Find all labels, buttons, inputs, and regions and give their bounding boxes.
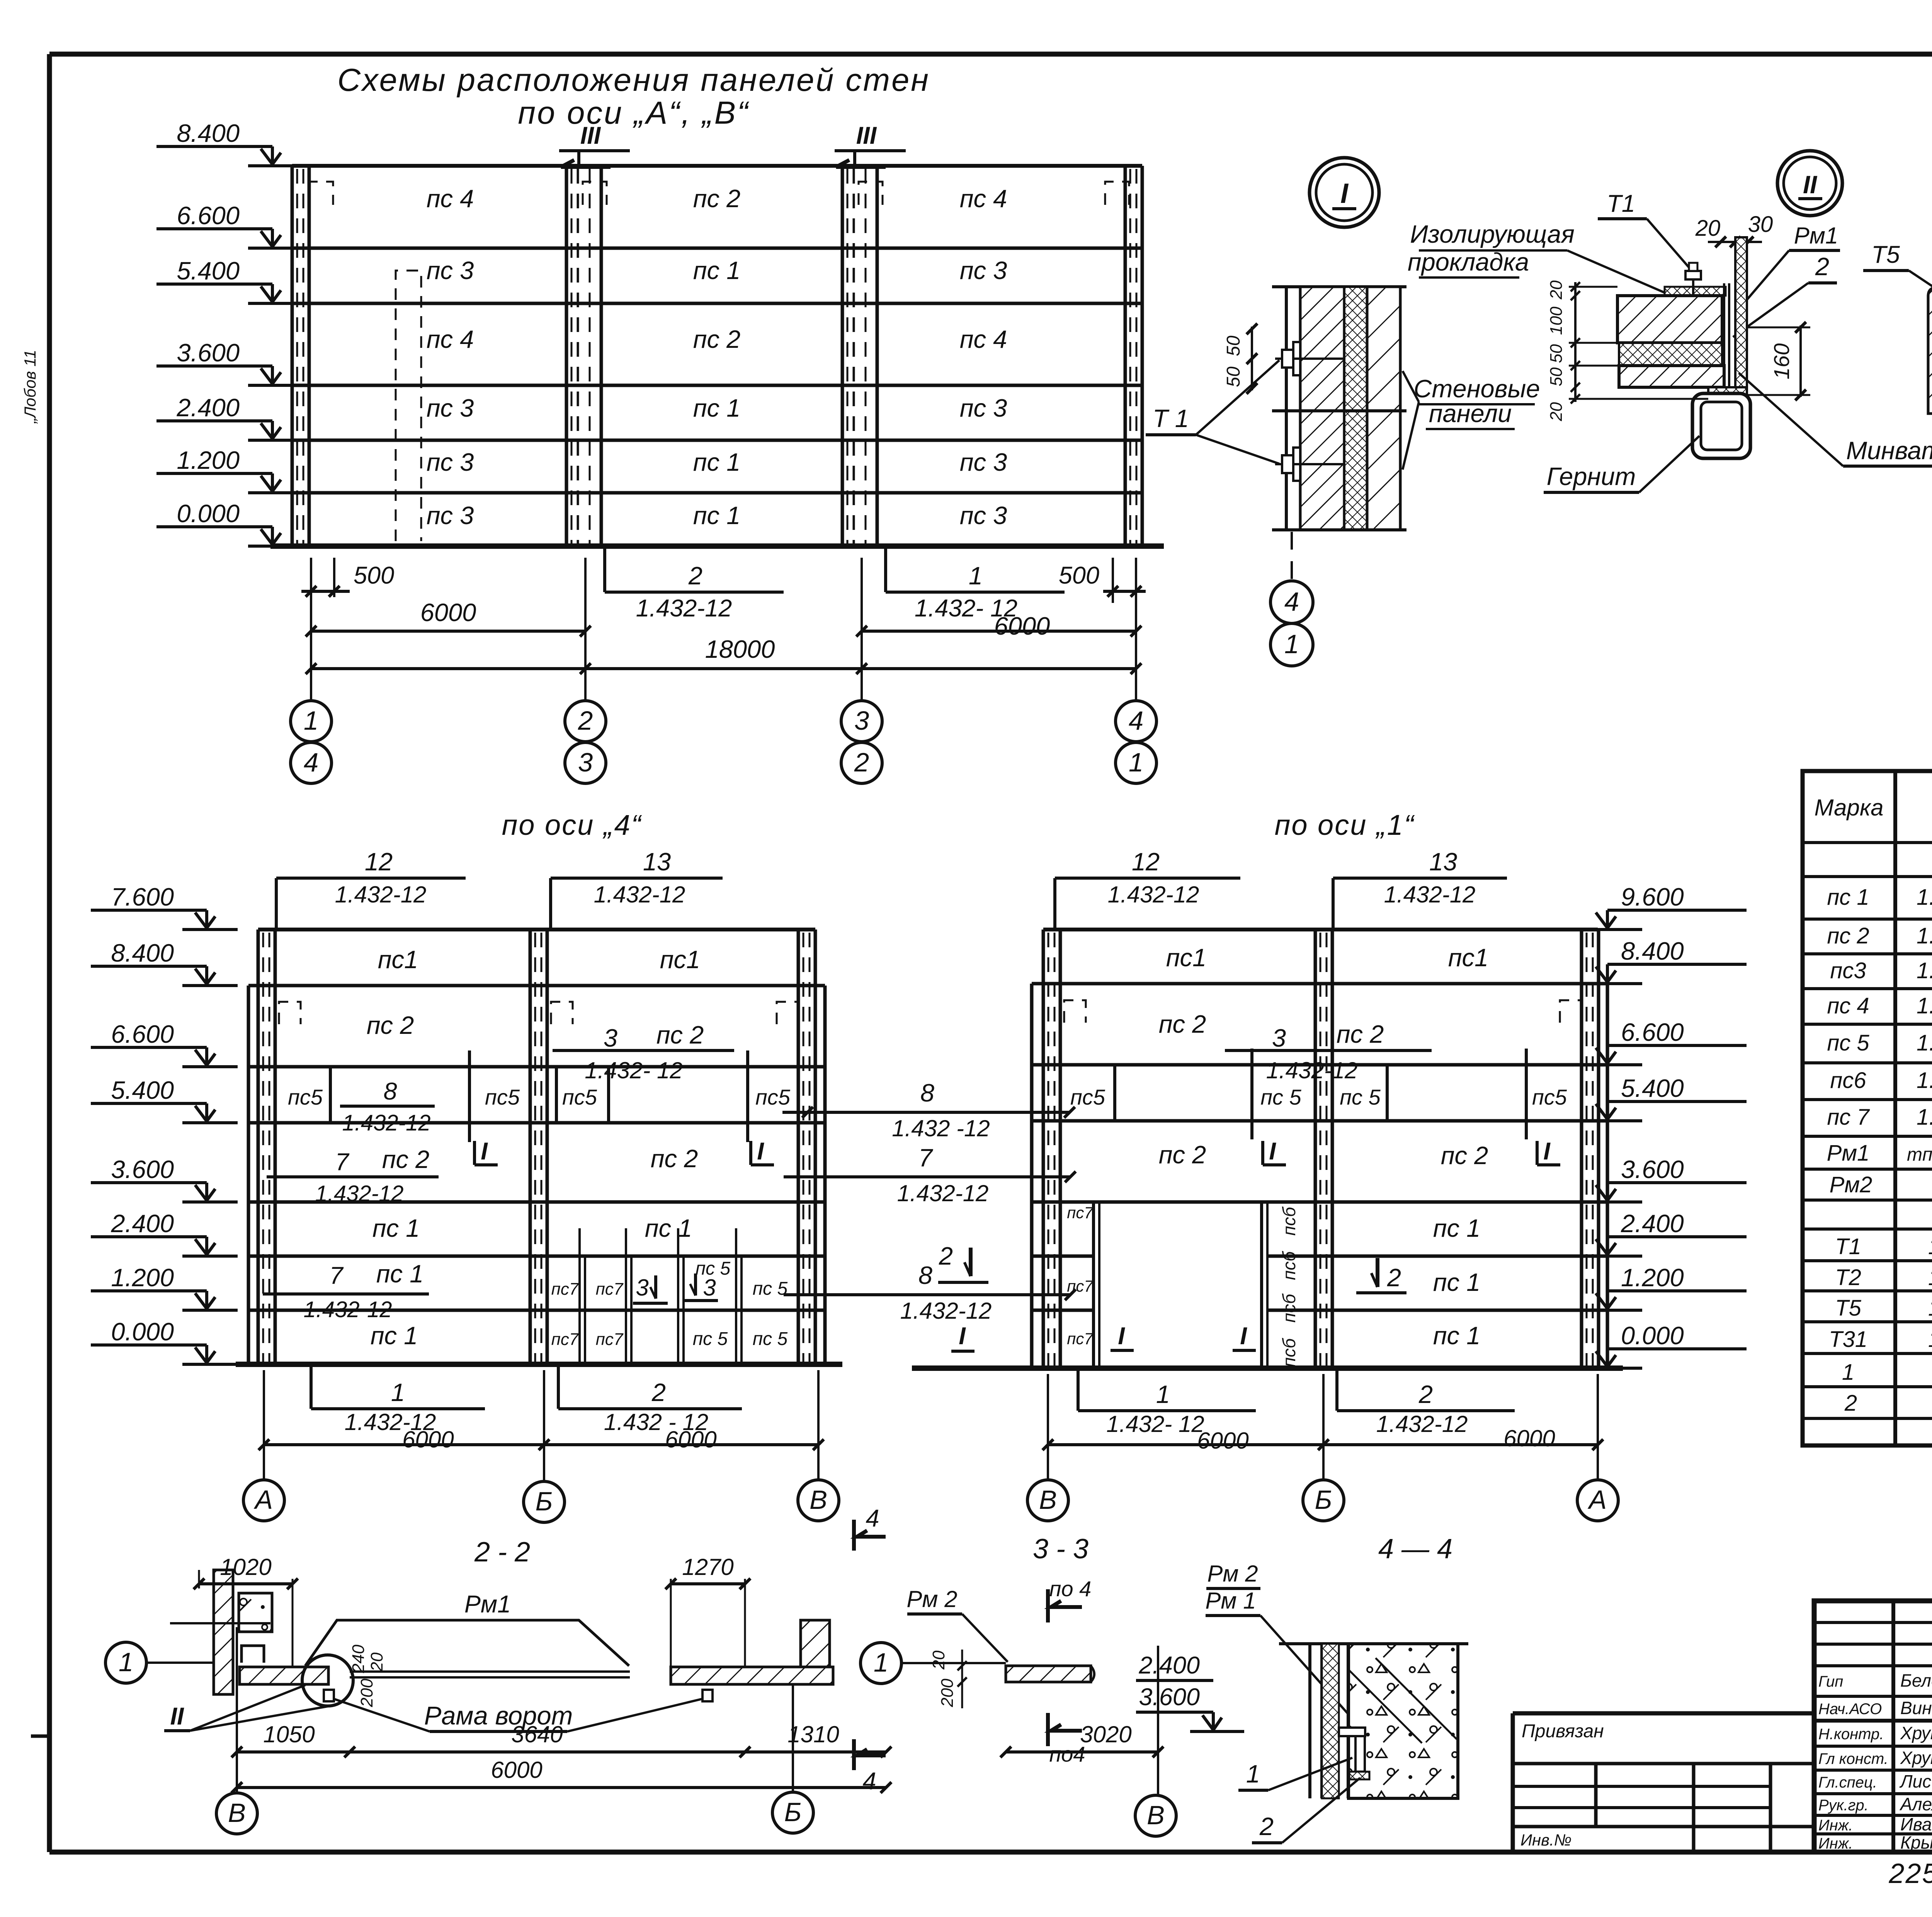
svg-text:5.400: 5.400 [111,1076,174,1104]
po osi 4 top band [258,928,815,931]
svg-text:6000: 6000 [1197,1428,1248,1454]
svg-text:пс 2: пс 2 [1159,1010,1206,1038]
svg-text:200: 200 [938,1679,957,1708]
svg-text:20: 20 [929,1650,948,1670]
svg-text:1.432-12: 1.432-12 [900,1298,992,1324]
svg-text:пс 3: пс 3 [427,448,474,476]
svg-text:4: 4 [862,1768,876,1795]
po osi 4 outer walls [247,986,250,1364]
leader 7 / 1.432-12 at 3.600 [784,1175,1070,1178]
svg-text:3: 3 [1272,1024,1286,1052]
svg-text:1.439 - 2: 1.439 - 2 [1928,1327,1932,1352]
svg-text:3.600: 3.600 [177,339,240,367]
svg-text:Т 1: Т 1 [1153,404,1189,432]
axis circle 4 [291,742,332,783]
svg-text:пс 5: пс 5 [753,1329,788,1349]
svg-text:2: 2 [1418,1380,1433,1408]
section 4-4 panel lines [1308,1644,1311,1798]
section mark 4 bottom [852,1739,856,1770]
svg-text:2.400: 2.400 [1621,1209,1684,1238]
svg-text:Гл конст.: Гл конст. [1818,1750,1888,1767]
svg-text:1.432-12: 1.432-12 [335,882,427,907]
svg-text:1: 1 [874,1648,888,1677]
detail I callout circle [1310,158,1379,227]
dim 500 left [301,590,350,593]
dim 6000 right bay [862,630,1136,633]
svg-text:2 - 2: 2 - 2 [474,1537,530,1568]
svg-text:тп902-2-434.87 кжи.250: тп902-2-434.87 кжи.250 [1907,1144,1932,1165]
svg-text:1050: 1050 [263,1721,315,1747]
svg-text:Инж.: Инж. [1818,1817,1853,1834]
po osi 4 lower cells verticals [578,1256,581,1364]
section 2-2 panel strip right [671,1667,833,1684]
svg-text:8.400: 8.400 [177,119,240,147]
svg-text:В: В [810,1485,827,1515]
dim 500 right [1103,590,1146,593]
svg-text:пс7: пс7 [596,1280,624,1299]
svg-text:2.400: 2.400 [176,393,240,422]
po osi 4 ps5 row verticals [329,1067,332,1123]
svg-text:1.432-12: 1.432-12 [1928,1234,1932,1259]
svg-text:1: 1 [119,1647,133,1677]
svg-text:Минвата: Минвата [1846,436,1932,465]
svg-text:50: 50 [1223,335,1244,356]
svg-text:I: I [481,1138,488,1165]
svg-text:2: 2 [1815,252,1829,281]
svg-text:2: 2 [1387,1263,1401,1292]
svg-text:Винклер: Винклер [1900,1698,1932,1718]
svg-text:по оси „1“: по оси „1“ [1275,809,1415,841]
po osi 1 doorway [1092,1202,1095,1368]
svg-text:2: 2 [854,747,869,777]
svg-text:Стеновые: Стеновые [1413,375,1540,403]
svg-text:1.432-12: 1.432-12 [315,1181,404,1206]
dim 18000 [311,667,1136,670]
svg-text:3640: 3640 [511,1721,563,1747]
svg-text:1.432-12: 1.432-12 [1384,882,1476,907]
axis circle 1 [1270,623,1313,666]
svg-text:по оси „4“: по оси „4“ [502,809,642,841]
svg-text:6000: 6000 [1503,1425,1555,1451]
axis circle &#1040; [1577,1480,1618,1521]
svg-text:1.432-12: 1.432-12 [897,1180,989,1206]
svg-text:13: 13 [1429,848,1457,876]
po osi 4 bottom labels [310,1364,313,1409]
svg-text:Гернит: Гернит [1547,462,1636,490]
svg-text:пс 1: пс 1 [1827,885,1869,910]
svg-text:I: I [1240,1323,1247,1350]
svg-text:Рук.гр.: Рук.гр. [1818,1797,1869,1814]
svg-text:1: 1 [1284,629,1299,659]
axis circle 1 [105,1642,146,1683]
mark 2 with arrow inside [1376,1258,1379,1287]
svg-text:2: 2 [939,1242,953,1270]
axis circle &#1042; [1027,1480,1068,1521]
svg-text:1.432-12: 1.432-12 [304,1297,392,1322]
detail II lower concrete [1619,366,1724,387]
svg-text:6000: 6000 [994,612,1050,640]
svg-text:I: I [1340,178,1349,209]
svg-text:3: 3 [703,1275,716,1301]
axis circle &#1041; [772,1792,813,1833]
svg-text:пс 5: пс 5 [693,1329,728,1349]
svg-text:пс 2: пс 2 [693,184,740,213]
svg-text:пс 1: пс 1 [372,1214,420,1242]
svg-text:по оси „А“, „В“: по оси „А“, „В“ [518,95,750,131]
svg-text:3.600: 3.600 [1621,1155,1684,1183]
svg-text:пс 2: пс 2 [1441,1141,1488,1170]
svg-text:50: 50 [1223,366,1244,387]
scheme AB outline and level lines [292,164,1142,168]
svg-text:Рм 1: Рм 1 [1205,1588,1256,1614]
privyazan grid [1513,1762,1814,1765]
section 3-3 panel strip [954,1662,1006,1664]
scheme AB column strip axis 1 [291,166,294,546]
svg-text:50: 50 [1547,344,1566,363]
detail I dim 50 50 [1251,327,1253,390]
axis extension lines [310,558,312,700]
svg-text:6000: 6000 [665,1427,716,1452]
svg-text:22529-03 23: 22529-03 23 [1888,1858,1932,1889]
svg-text:2: 2 [1259,1812,1274,1840]
detail II frame plate [1723,283,1725,391]
svg-text:5.400: 5.400 [177,257,240,285]
title block long divider [1814,1719,1932,1723]
svg-text:200: 200 [357,1679,376,1708]
section 2-2 callout circle II [302,1655,353,1706]
svg-text:Т5: Т5 [1871,241,1900,268]
svg-text:1.432- 12: 1.432- 12 [1917,885,1932,910]
svg-text:1.432-12: 1.432-12 [342,1110,431,1136]
svg-text:пс 5: пс 5 [1827,1030,1869,1056]
svg-text:пс5: пс5 [288,1085,323,1109]
svg-text:1.432 - 12: 1.432 - 12 [1928,1265,1932,1290]
svg-text:пс 7: пс 7 [1827,1105,1870,1130]
section 4-4 wall top line [1279,1642,1468,1645]
svg-text:3: 3 [854,706,869,735]
svg-text:5.400: 5.400 [1621,1074,1684,1102]
svg-text:20: 20 [1547,402,1566,421]
svg-text:1.432- 12: 1.432- 12 [1106,1411,1204,1437]
svg-text:Лисичкин: Лисичкин [1899,1771,1932,1791]
svg-text:панели: панели [1429,399,1512,427]
axis circle 1 [861,1643,901,1684]
svg-text:пс 3: пс 3 [960,394,1007,422]
svg-text:Схемы расположения панелей: Схемы расположения панелей стен [337,62,930,98]
section mark 4 top [852,1520,856,1551]
svg-text:50: 50 [1547,367,1566,386]
svg-text:пс1: пс1 [1166,943,1206,972]
svg-text:Крынкина: Крынкина [1900,1832,1932,1852]
svg-text:1.432-12: 1.432-12 [1917,958,1932,983]
svg-text:20: 20 [1695,216,1721,241]
po osi 1 top band [1043,928,1598,931]
dim 160 [1799,325,1802,397]
svg-text:8: 8 [918,1261,932,1289]
po osi 4 level lines [248,984,825,987]
svg-text:псб: псб [1279,1293,1299,1323]
svg-text:0.000: 0.000 [177,499,240,528]
svg-text:Гл.спец.: Гл.спец. [1818,1774,1877,1791]
svg-text:В: В [1147,1800,1165,1830]
svg-text:пс 1: пс 1 [693,256,740,284]
svg-text:6000: 6000 [402,1427,454,1452]
svg-text:Привязан: Привязан [1522,1721,1604,1742]
section 1-1 left strip [1928,288,1932,414]
svg-text:Б: Б [1315,1485,1332,1515]
svg-text:пс 4: пс 4 [427,184,474,213]
svg-text:пс5: пс5 [1532,1085,1567,1109]
axis circle 2 [565,701,606,742]
svg-text:пс 3: пс 3 [427,501,474,529]
svg-text:9.600: 9.600 [1621,883,1684,911]
label 1 / 1.432-12 bay 3-4 [884,546,887,592]
svg-text:3: 3 [578,747,593,777]
svg-text:Рм2: Рм2 [1830,1172,1872,1197]
svg-text:пс 1: пс 1 [1433,1214,1480,1242]
svg-text:I: I [1543,1138,1551,1165]
svg-text:2: 2 [688,562,702,590]
svg-text:III: III [580,122,601,149]
po osi 4 column strips [257,930,260,1364]
detail II left dim chain [1574,282,1577,402]
svg-text:пс1: пс1 [378,945,418,974]
svg-text:пс 4: пс 4 [960,184,1007,213]
po osi 1 outer walls [1030,984,1034,1368]
svg-text:3020: 3020 [1080,1721,1131,1747]
svg-text:I: I [1269,1138,1276,1165]
svg-text:пс 3: пс 3 [427,394,474,422]
svg-text:1.432-12: 1.432-12 [1108,882,1199,907]
title block outer frame [1814,1601,1932,1852]
section 2-2 axis verticals [236,1627,238,1793]
svg-text:Марка: Марка [1814,795,1883,821]
svg-text:А: А [253,1485,273,1515]
svg-text:2: 2 [651,1378,666,1406]
axis circle 4 [1270,581,1313,623]
svg-text:1.200: 1.200 [177,446,240,474]
svg-text:1: 1 [969,562,983,590]
svg-text:Б: Б [784,1797,802,1827]
svg-text:13: 13 [643,848,671,876]
svg-text:Алехова: Алехова [1899,1794,1932,1814]
svg-text:пс 1: пс 1 [1433,1321,1480,1350]
svg-text:160: 160 [1769,343,1794,379]
svg-text:пс 5: пс 5 [1260,1085,1301,1109]
svg-text:500: 500 [354,562,394,589]
svg-text:8: 8 [383,1078,397,1105]
svg-text:В: В [228,1798,246,1828]
axis circle &#1041; [1303,1480,1344,1521]
svg-text:пс 3: пс 3 [960,501,1007,529]
leader 8 / 1.432-12 at 5.400 [782,1111,1070,1114]
svg-text:Т31: Т31 [1829,1327,1867,1352]
svg-text:1270: 1270 [682,1554,733,1580]
po osi 1 column strips [1042,930,1045,1368]
svg-text:Б: Б [536,1486,553,1516]
svg-text:7.600: 7.600 [111,883,174,911]
svg-text:I: I [1118,1323,1125,1350]
dim 6000 left bay [311,630,585,633]
section 2-2 dims top [199,1582,293,1585]
scheme AB column strip axis 2 [565,166,568,546]
svg-text:3 - 3: 3 - 3 [1033,1534,1088,1565]
svg-text:12: 12 [365,848,393,876]
svg-text:III: III [856,122,877,149]
svg-text:Рм1: Рм1 [1827,1141,1870,1166]
svg-text:0.000: 0.000 [1621,1321,1684,1350]
svg-text:2: 2 [578,706,593,735]
svg-text:пс 5: пс 5 [1340,1085,1381,1109]
svg-text:Хрупало: Хрупало [1900,1748,1932,1768]
detail II gasket plate [1665,287,1726,296]
svg-text:пс 2: пс 2 [1159,1141,1206,1169]
svg-text:I: I [959,1323,966,1350]
svg-text:1.432-12: 1.432-12 [636,595,732,622]
svg-text:8: 8 [920,1079,934,1107]
svg-text:пс 2: пс 2 [693,325,740,353]
svg-text:8.400: 8.400 [111,939,174,967]
section 3-3 po4 marks [1046,1589,1050,1622]
svg-text:пс 4: пс 4 [427,325,474,353]
svg-text:Инв.№: Инв.№ [1520,1831,1571,1849]
section 2-2 frame RM1 outline [305,1620,629,1666]
section 4-4 frame plates [1339,1728,1365,1736]
svg-text:6000: 6000 [491,1757,542,1783]
detail I axis leader [1291,532,1293,580]
axis circle 3 [841,701,882,742]
svg-text:2.400: 2.400 [1138,1652,1200,1679]
svg-text:7: 7 [329,1262,344,1289]
sheet frame [49,52,1932,57]
svg-text:пс 1: пс 1 [1433,1268,1480,1296]
svg-text:пс 1: пс 1 [693,501,740,529]
svg-text:I: I [757,1138,764,1165]
svg-text:прокладка: прокладка [1408,248,1529,276]
svg-text:20: 20 [1547,280,1566,300]
svg-text:Рм 2: Рм 2 [906,1586,957,1612]
po osi 1 level lines [1032,982,1607,986]
svg-text:пс7: пс7 [1067,1204,1094,1222]
svg-text:псб: псб [1279,1338,1299,1367]
svg-text:1.200: 1.200 [1621,1263,1684,1292]
detail I wall section [1272,285,1406,288]
svg-text:20: 20 [367,1652,386,1672]
svg-text:6.600: 6.600 [1621,1018,1684,1046]
section 2-2 panel strip left [240,1667,328,1684]
svg-text:пс 3: пс 3 [960,448,1007,476]
svg-text:1.432-12: 1.432-12 [1376,1411,1468,1437]
svg-text:2.400: 2.400 [111,1209,174,1238]
svg-text:1: 1 [391,1378,405,1406]
svg-text:1: 1 [1156,1380,1170,1408]
svg-text:0.000: 0.000 [111,1318,174,1346]
svg-text:пс 5: пс 5 [753,1279,788,1299]
detail I bolt upper [1293,342,1300,375]
svg-text:18000: 18000 [705,635,775,663]
svg-text:1.432 - 12: 1.432 - 12 [1917,993,1932,1018]
detail I bolt lower [1293,448,1300,481]
po osi 1 bottom labels [1077,1368,1080,1411]
svg-text:Т1: Т1 [1835,1234,1861,1259]
title block small top rows [1814,1621,1932,1624]
svg-text:1.432 - 12: 1.432 - 12 [1917,1030,1932,1056]
svg-text:В: В [1039,1485,1057,1515]
svg-text:пс 1: пс 1 [376,1260,423,1288]
svg-text:1: 1 [1129,747,1143,777]
svg-text:пс 2: пс 2 [1337,1020,1384,1048]
svg-text:Белоус: Белоус [1900,1670,1932,1691]
svg-text:3: 3 [604,1024,617,1052]
axis circle &#1040; [243,1480,284,1521]
detail II upper concrete [1617,296,1722,343]
svg-text:1.432 -12: 1.432 -12 [892,1115,990,1141]
svg-text:3.600: 3.600 [111,1155,174,1183]
svg-text:Рм 2: Рм 2 [1207,1561,1258,1587]
svg-text:пс 3: пс 3 [427,256,474,284]
section 2-2 left wall [214,1570,233,1694]
svg-text:7: 7 [335,1149,349,1176]
svg-text:пс 4: пс 4 [960,325,1007,353]
svg-text:1. 432-12: 1. 432-12 [1917,1105,1932,1130]
svg-text:Т2: Т2 [1835,1265,1861,1290]
svg-text:II: II [170,1703,184,1730]
po osi 1 ps5 row verticals [1113,1065,1116,1121]
svg-text:пс5: пс5 [562,1085,597,1109]
svg-text:3.600: 3.600 [1139,1684,1200,1711]
title block verticals left part [1891,1601,1895,1852]
svg-text:1.432-12: 1.432-12 [1917,923,1932,948]
svg-text:Изолирующая: Изолирующая [1410,220,1575,248]
svg-text:пс1: пс1 [1448,943,1488,972]
svg-text:пс 2: пс 2 [651,1144,698,1173]
svg-text:1.432- 12: 1.432- 12 [585,1057,683,1083]
svg-text:7: 7 [918,1144,934,1172]
svg-text:Т1: Т1 [1607,190,1635,217]
svg-text:пс1: пс1 [660,945,700,974]
detail II callout circle [1777,151,1842,216]
svg-text:12: 12 [1132,848,1160,876]
svg-text:Нач.АСО: Нач.АСО [1818,1701,1882,1718]
axis circle &#1042; [798,1480,839,1521]
svg-text:Рм1: Рм1 [1794,223,1838,249]
svg-text:8.400: 8.400 [1621,937,1684,965]
svg-text:6000: 6000 [420,598,476,627]
svg-text:пс 1: пс 1 [371,1321,418,1350]
svg-text:6.600: 6.600 [111,1020,174,1048]
svg-text:3: 3 [636,1275,648,1301]
detail II bolt [1692,275,1694,340]
scheme AB column strip axis 4 [1124,166,1127,546]
svg-text:пс5: пс5 [755,1085,791,1109]
section 2-2 door posts [324,1690,334,1701]
svg-text:пс 1: пс 1 [645,1214,692,1242]
svg-text:по 4: по 4 [1049,1577,1092,1601]
svg-text:пс 1: пс 1 [693,448,740,476]
svg-text:1: 1 [1246,1760,1260,1788]
svg-text:1: 1 [1842,1360,1854,1385]
svg-text:Инж.: Инж. [1818,1835,1853,1852]
axis circle &#1042; [1135,1795,1176,1836]
leader 8 / 1.432-12 at 1.200 [784,1293,1070,1296]
svg-text:4 — 4: 4 — 4 [1378,1534,1452,1565]
svg-text:пс 2: пс 2 [656,1021,704,1049]
svg-text:1: 1 [304,706,318,735]
svg-text:4: 4 [304,747,318,777]
svg-text:пс5: пс5 [1070,1085,1105,1109]
svg-text:4: 4 [1129,706,1143,735]
svg-text:пс 3: пс 3 [960,256,1007,284]
